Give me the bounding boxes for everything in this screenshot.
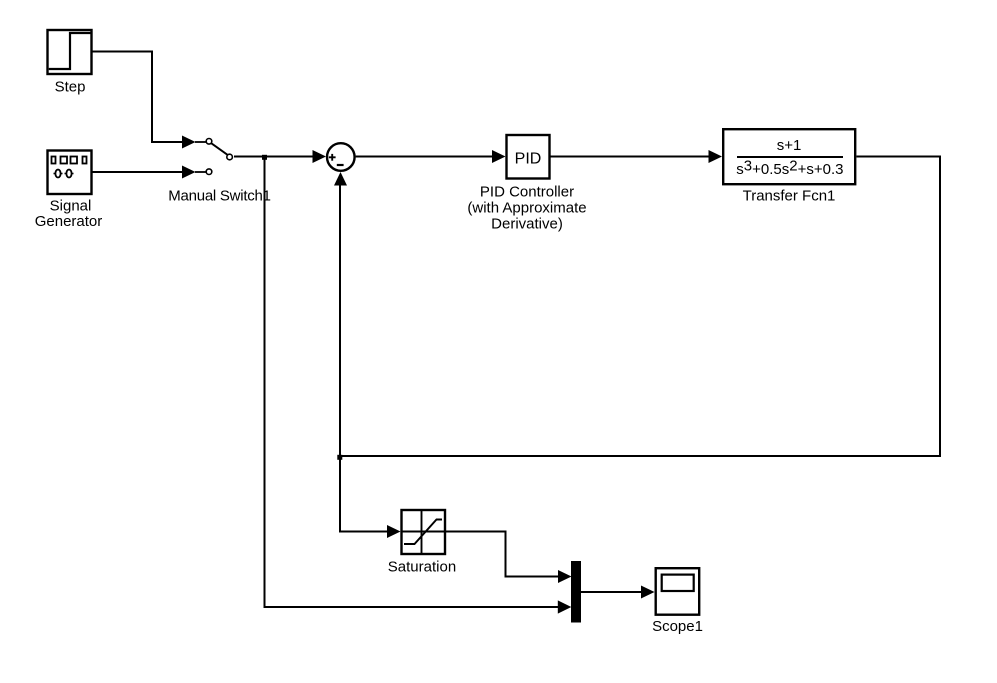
block PID Controller <box>507 135 550 179</box>
block Saturation <box>402 510 446 554</box>
node feedback junction <box>337 455 342 460</box>
svg-text:PID: PID <box>515 151 542 168</box>
svg-text:Transfer Fcn1: Transfer Fcn1 <box>743 188 836 205</box>
wire Signal Generator to switch bottom input <box>93 166 196 179</box>
wire Transfer Fcn output feedback loop <box>339 157 940 457</box>
svg-text:Derivative): Derivative) <box>491 216 563 233</box>
block Step <box>48 30 92 74</box>
block Mux <box>571 561 581 623</box>
block Scope1 <box>656 568 700 615</box>
block Sum <box>327 143 355 171</box>
block Transfer Fcn1 <box>723 129 855 184</box>
wire sum output to PID <box>356 150 506 163</box>
wire Step to switch top input <box>93 52 196 149</box>
block Signal Generator <box>48 151 92 195</box>
svg-text:Manual Switch1: Manual Switch1 <box>168 188 270 205</box>
svg-text:Saturation: Saturation <box>388 559 456 576</box>
svg-text:(with Approximate: (with Approximate <box>467 200 586 217</box>
block Manual Switch1 <box>195 139 232 175</box>
wire PID output to Transfer Fcn <box>551 150 723 163</box>
wire mux output to Scope <box>581 586 655 599</box>
svg-text:PID Controller: PID Controller <box>480 184 574 201</box>
wire switch output to sum <box>234 150 326 163</box>
wire junction down to mux input 2 <box>265 157 572 614</box>
svg-text:Scope1: Scope1 <box>652 618 703 635</box>
node junction on switch output <box>262 155 267 160</box>
wire Saturation output to mux input 1 <box>446 532 572 584</box>
svg-text:Signal: Signal <box>50 198 92 215</box>
svg-text:Generator: Generator <box>35 213 103 230</box>
wire junction down to Saturation input <box>340 456 401 538</box>
svg-text:s+1: s+1 <box>777 137 802 154</box>
wire junction up to sum minus input <box>334 172 347 456</box>
svg-text:Step: Step <box>55 79 86 96</box>
